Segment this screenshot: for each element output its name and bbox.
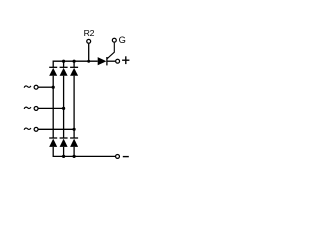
wire column 2 middle [63,76,65,138]
svg-text:G: G [119,35,126,45]
svg-text:R2: R2 [84,28,95,38]
AC input wire 3 [39,128,75,130]
wire column 2 bottom stub [63,147,65,157]
node: AC3 / col3 junction [73,128,76,131]
node: top rail / R2 junction [87,60,90,63]
diode D1 (upper, col 1) [49,67,57,75]
label - [123,156,129,158]
wire R2 terminal lead [88,44,90,62]
wire column 1 middle [52,76,54,138]
node: bottom rail / col2 junction [62,155,65,158]
node: top rail / col3 junction [73,60,76,63]
diode D2 (upper, col 2) [60,67,68,75]
terminal - [116,154,120,158]
wire column 3 middle [73,76,75,138]
label ~ AC1 [24,86,31,88]
node: AC1 / col1 junction [52,86,55,89]
diode D3 (upper, col 3) [70,67,78,75]
wire cathode to + terminal [107,60,116,62]
label + [122,56,129,64]
bottom rail (- bus) [53,147,115,157]
node: AC2 / col2 junction [62,107,65,110]
terminal R2 [87,39,91,43]
node: bottom rail / col3 junction [73,155,76,158]
AC input wire 1 [39,86,54,88]
wire gate lead [107,43,114,59]
diode D4 (lower, col 1) [49,138,57,147]
diode D6 (lower, col 3) [70,138,78,147]
diode D5 (lower, col 2) [60,138,68,147]
label ~ AC3 [24,128,31,130]
top rail (+ bus) [53,61,97,67]
wire column 3 bottom stub [73,147,75,157]
terminal AC1 [34,85,38,89]
node: top rail / col2 junction [62,60,65,63]
terminal + [116,59,120,63]
terminal G [112,38,116,42]
label ~ AC2 [24,107,31,109]
wire column 2 top stub [63,61,65,67]
wire column 3 top stub [73,61,75,67]
terminal AC3 [34,127,38,131]
terminal AC2 [34,106,38,110]
AC input wire 2 [39,107,64,109]
thyristor Q1 [98,57,107,65]
